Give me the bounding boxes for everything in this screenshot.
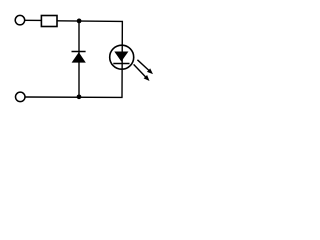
wire top terminal to resistor R1 [24, 19, 42, 21]
wire middle branch from top junction down to bottom junction [78, 21, 80, 97]
terminal bottom-left [16, 92, 26, 102]
resistor R1 body [41, 16, 57, 27]
LED D2 cathode bar [113, 63, 129, 65]
diode D1 triangle (pointing up) [72, 52, 86, 62]
junction dot top node [77, 19, 82, 24]
LED emission arrow 1 [136, 58, 155, 76]
wire bottom rail [24, 96, 122, 98]
diode D1 cathode bar [72, 51, 86, 53]
wire resistor to top-right corner, down through LED to bottom-right corner [57, 21, 123, 98]
junction dot bottom node [77, 94, 82, 99]
LED D2 triangle (pointing down) [114, 52, 128, 62]
terminal top-left [15, 15, 25, 25]
LED envelope circle D2 [110, 45, 134, 69]
LED emission arrow 2 [132, 63, 151, 83]
